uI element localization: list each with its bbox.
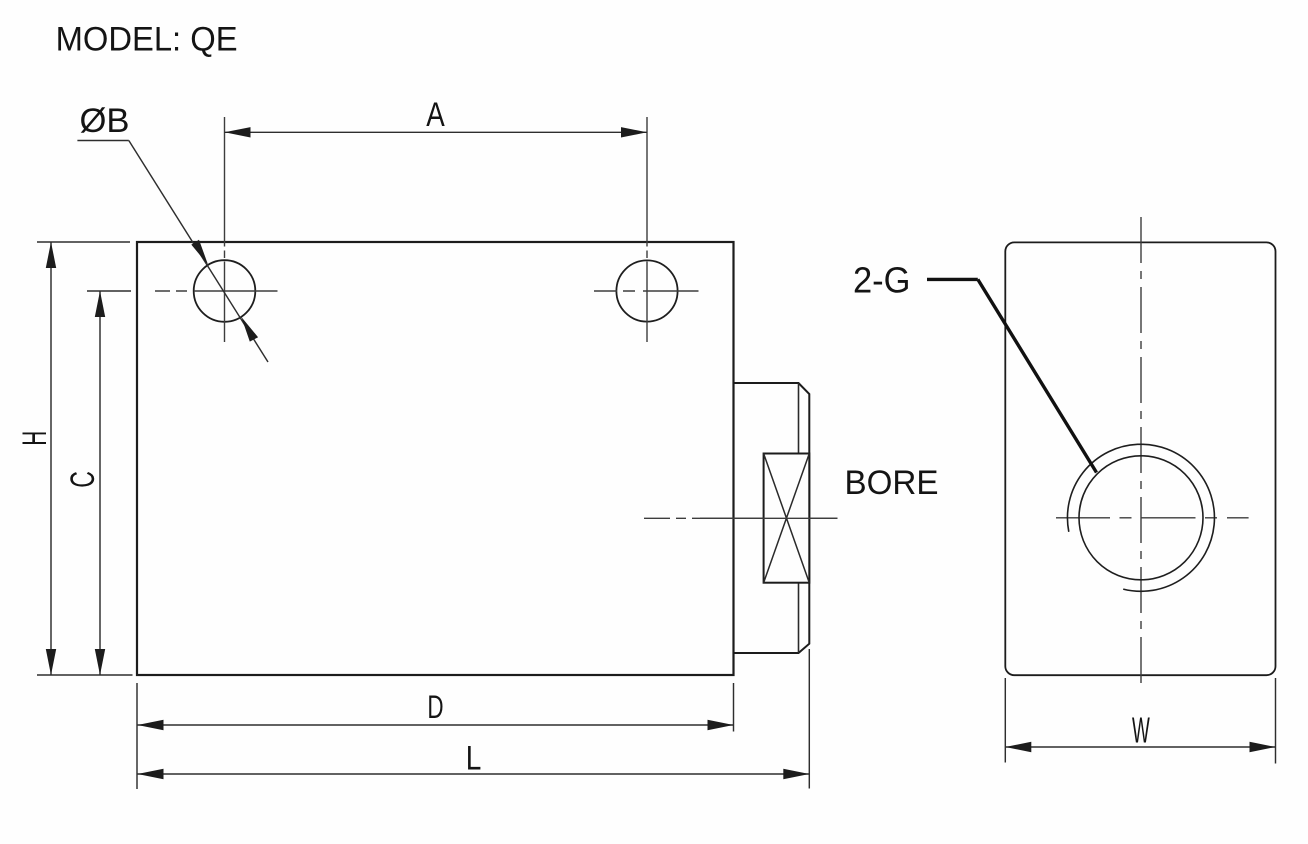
dimension A — [225, 127, 648, 137]
svg-text:H: H — [16, 431, 54, 446]
svg-text:W: W — [1132, 709, 1150, 750]
bore centerline (front view) — [644, 517, 838, 519]
bore inner circle — [1079, 456, 1203, 580]
right hole horizontal centerline — [594, 290, 699, 292]
svg-text:BORE: BORE — [845, 464, 939, 502]
svg-text:L: L — [466, 740, 482, 778]
svg-text:2-G: 2-G — [853, 259, 911, 300]
dimension H — [37, 242, 133, 675]
svg-text:D: D — [427, 689, 443, 725]
side view body — [1005, 242, 1275, 675]
svg-text:A: A — [426, 96, 445, 134]
svg-text:MODEL: QE: MODEL: QE — [56, 21, 238, 59]
bore thread arc — [1067, 444, 1214, 591]
dimension D — [137, 683, 734, 789]
right hole vertical centerline + A extension — [646, 117, 648, 342]
side view horizontal centerline — [1056, 517, 1249, 519]
svg-text:ØB: ØB — [80, 102, 130, 140]
left hole horizontal centerline — [155, 290, 278, 292]
port symbol box with X — [764, 454, 810, 583]
centerline over port box — [700, 517, 838, 519]
left hole vertical centerline + A extension — [224, 117, 226, 342]
side view vertical centerline — [1140, 217, 1142, 688]
body outline (front view) — [137, 242, 734, 675]
dimension W — [1005, 678, 1275, 764]
left hole — [194, 260, 256, 322]
dimension L — [138, 649, 810, 789]
dimension C — [87, 291, 131, 675]
leader 2-G — [927, 279, 1097, 472]
svg-text:C: C — [64, 471, 102, 488]
port boss outline — [734, 383, 810, 653]
right hole — [616, 260, 677, 321]
boss chamfer line — [798, 383, 800, 454]
leader OB — [77, 141, 268, 363]
